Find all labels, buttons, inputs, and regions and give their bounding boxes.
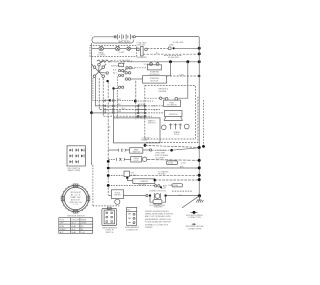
labels above bottom-middle — [138, 185, 173, 187]
svg-text:12V: 12V — [163, 188, 167, 190]
node w1b — [134, 100, 137, 103]
connector small P5 — [124, 171, 137, 179]
connector ticks rows — [104, 99, 114, 113]
svg-text:LOCK: LOCK — [134, 160, 140, 162]
wire w1 dashes right — [135, 100, 153, 102]
wire x108 to b4 — [108, 194, 111, 196]
wire rail left — [92, 43, 120, 206]
node y185 dot — [107, 184, 110, 187]
svg-text:WHT: WHT — [117, 99, 122, 101]
label m2 right — [155, 150, 169, 159]
wire main bus y62 — [128, 61, 199, 63]
svg-text:BREAKER: BREAKER — [137, 56, 147, 59]
ground chassis — [182, 196, 203, 208]
label wire rows — [117, 99, 126, 113]
label ammeter — [154, 204, 164, 209]
wire headlight row — [92, 48, 138, 50]
wire y168 row — [108, 166, 199, 168]
wire ammeter bottom to rail — [143, 52, 199, 55]
label t2 caption — [125, 226, 140, 231]
switch M2 — [108, 148, 152, 154]
connector C6 — [102, 207, 117, 225]
wire switch terminal 2 — [96, 78, 139, 106]
svg-text:B: B — [109, 130, 111, 132]
wire ammeter loop — [150, 196, 166, 204]
wire bus drop to starter — [166, 62, 170, 76]
svg-text:CHARGE: CHARGE — [140, 180, 149, 183]
starter M — [143, 76, 167, 83]
svg-text:W: W — [109, 127, 111, 129]
wire b5 to rail — [155, 179, 199, 181]
table T1 — [59, 218, 93, 234]
contacts K1 — [123, 61, 136, 80]
label cb rows — [152, 105, 157, 111]
svg-text:CONNECTIONS: CONNECTIONS — [188, 228, 202, 230]
svg-text:FUSE: FUSE — [173, 185, 179, 187]
svg-text:PLUG: PLUG — [174, 134, 180, 136]
svg-text:WIRING SHOWN WITH ALL: WIRING SHOWN WITH ALL — [145, 210, 169, 213]
wire to rail dot 48 — [175, 47, 199, 49]
node rail 147 — [198, 146, 201, 149]
wire b5 left — [127, 178, 133, 181]
plug table T0 — [67, 146, 85, 166]
contacts K0 column — [114, 63, 124, 88]
label c6 caption — [102, 226, 117, 233]
svg-text:16 GA. RED: 16 GA. RED — [173, 41, 185, 44]
wire k0 drop — [113, 89, 115, 118]
svg-text:B+A2: B+A2 — [72, 231, 76, 234]
node y175 dots — [107, 174, 201, 177]
wire bus drop to engine — [178, 62, 188, 98]
wire rail right — [198, 37, 200, 196]
wire ground run y195 — [123, 195, 182, 197]
svg-text:SWITCH: SWITCH — [111, 65, 119, 67]
svg-text:GROUND: GROUND — [158, 174, 167, 176]
svg-text:+ -: + - — [119, 65, 122, 67]
wire contacts to solenoid — [131, 68, 148, 79]
node b5 out — [154, 179, 157, 182]
wire y175 row — [108, 175, 124, 177]
node m3 dots — [107, 159, 201, 163]
node m1 out — [144, 144, 147, 147]
wire m3 row — [108, 158, 199, 161]
wire m2 circle to rail — [152, 149, 171, 151]
wire dashed y191 — [172, 190, 192, 192]
svg-text:6 GA: 6 GA — [181, 161, 186, 164]
module B4 — [112, 190, 124, 205]
connector box CB — [137, 104, 145, 118]
svg-text:NORMALLY CLOSED POS: NORMALLY CLOSED POS — [145, 223, 169, 226]
wire solenoid out y76 — [166, 73, 200, 77]
wire rail row to connector — [92, 112, 139, 114]
wire w1 continue — [110, 99, 135, 101]
svg-text:IGNITION: IGNITION — [109, 61, 118, 63]
svg-text:VIEWED: VIEWED — [145, 227, 153, 229]
svg-text:MOTOR: MOTOR — [151, 80, 159, 82]
svg-text:6 GA.: 6 GA. — [179, 73, 185, 76]
wire label row y56 — [164, 56, 182, 60]
svg-text:MAKE: MAKE — [81, 219, 87, 222]
ammeter A2 — [146, 190, 167, 199]
label inline box — [167, 161, 187, 165]
dashed outer right — [203, 100, 205, 146]
wire switch terminal 5 long — [107, 82, 109, 195]
resistor R1 — [97, 60, 111, 63]
svg-text:METER: METER — [114, 195, 121, 197]
note paragraph — [145, 210, 174, 229]
ammeter A1 — [137, 45, 148, 59]
ignition switch S1 — [92, 61, 109, 78]
svg-text:ENGINE: ENGINE — [159, 91, 167, 93]
wire switch terminal 4 — [103, 78, 138, 116]
node w1 — [109, 99, 111, 101]
svg-text:B+A1: B+A1 — [72, 225, 76, 228]
headlights dashed box — [90, 46, 137, 57]
lamp L2 — [116, 46, 126, 53]
wire switch terminal 1 — [93, 78, 109, 101]
svg-text:OCCUPIED: OCCUPIED — [155, 157, 165, 159]
label right texts — [158, 170, 170, 175]
svg-text:(BACK VIEW): (BACK VIEW) — [68, 169, 81, 172]
wire m1 drop — [144, 143, 146, 145]
key switch connector circle — [61, 184, 90, 213]
svg-text:L+M: L+M — [81, 232, 85, 234]
wire switch terminal 3 — [99, 78, 138, 110]
node k0 dot — [112, 87, 114, 89]
wire conn to e1 — [162, 97, 165, 99]
svg-text:POSITION AND KEY SWITCH: POSITION AND KEY SWITCH — [145, 221, 171, 224]
svg-text:CONNECTORS: CONNECTORS — [188, 217, 202, 219]
svg-text:CONNECTOR: CONNECTOR — [126, 229, 138, 231]
svg-text:B+L: B+L — [81, 226, 84, 228]
connector engine in — [159, 97, 161, 99]
label fuse box — [172, 184, 183, 188]
node rail 179 — [198, 178, 201, 181]
wire m2 out to rail — [172, 148, 200, 150]
label ignition — [109, 61, 120, 74]
wire m1 to rail — [145, 145, 199, 147]
node m2 out — [170, 149, 173, 152]
node rail dots top — [198, 47, 201, 56]
svg-text:ENGAGEMENT LEVER IN ON: ENGAGEMENT LEVER IN ON — [145, 218, 172, 221]
svg-text:M+G: M+G — [72, 223, 77, 225]
magneto bracket — [164, 117, 183, 121]
legend item 1 — [186, 211, 203, 219]
svg-text:SWITCH: SWITCH — [106, 232, 114, 234]
wire into engine y98 — [145, 97, 159, 99]
wire to ground — [167, 195, 199, 197]
lamp L1 — [98, 46, 106, 56]
svg-text:LIGHT: LIGHT — [119, 52, 126, 54]
svg-text:GROUND: GROUND — [138, 185, 147, 187]
module M1 — [114, 116, 161, 143]
svg-text:A1 L: A1 L — [113, 71, 118, 74]
legend item 2 — [186, 223, 205, 230]
node outer dot — [202, 145, 205, 148]
svg-text:CONNECTOR PLUG: CONNECTOR PLUG — [149, 190, 167, 192]
label zigzag row — [119, 59, 130, 65]
label key switch caption — [68, 168, 81, 172]
svg-text:BATTERY: BATTERY — [119, 40, 131, 44]
svg-text:L + S: L + S — [73, 204, 78, 206]
svg-text:BRAKE: BRAKE — [142, 139, 149, 142]
svg-text:START: START — [60, 228, 67, 231]
module B5 — [133, 179, 155, 184]
wire resistor to bus — [111, 61, 128, 62]
node rail-left junction — [90, 111, 93, 114]
svg-text:RED: RED — [169, 44, 174, 46]
node bus dots — [169, 60, 201, 63]
battery B1 — [114, 32, 135, 43]
contacts K2 — [154, 184, 167, 189]
wire battery loop top — [92, 37, 199, 43]
svg-text:A B: A B — [132, 67, 136, 70]
connector P4 — [168, 44, 175, 49]
module E2 — [165, 111, 183, 117]
wire y175 right — [130, 174, 200, 176]
svg-text:BLK: BLK — [154, 110, 158, 112]
wire k0 drop2 — [116, 77, 118, 118]
svg-text:IGNITION SWITCH: IGNITION SWITCH — [67, 215, 85, 217]
solenoid SOL — [147, 62, 161, 76]
svg-text:LIGHTS: LIGHTS — [98, 55, 106, 57]
node ground dot — [198, 194, 201, 197]
svg-text:16 GA. RED: 16 GA. RED — [168, 56, 180, 59]
svg-text:NOTE / CAUTION: NOTE / CAUTION — [149, 204, 165, 207]
switch M3 — [116, 157, 147, 163]
svg-text:B S: B S — [113, 69, 117, 71]
node switch dot — [106, 80, 108, 82]
svg-text:-: - — [130, 32, 131, 34]
wire y185 row — [108, 184, 154, 186]
svg-text:NONE: NONE — [81, 223, 87, 225]
svg-text:IGNITION: IGNITION — [169, 114, 178, 116]
wire vertical x136 — [135, 81, 137, 120]
wire cb rows to engine parts — [146, 106, 165, 116]
table T2 — [127, 207, 137, 225]
svg-text:CIRCUIT: CIRCUIT — [72, 220, 80, 222]
svg-text:AND CLUTCH PEDAL DOWN: AND CLUTCH PEDAL DOWN — [145, 215, 171, 218]
svg-text:SOLENOID: SOLENOID — [167, 105, 177, 107]
engine dashed box — [145, 86, 198, 143]
svg-text:16 GA: 16 GA — [168, 162, 174, 165]
svg-text:RUN: RUN — [60, 226, 65, 228]
magneto E3 — [162, 123, 190, 136]
svg-text:A1: A1 — [81, 228, 83, 231]
svg-text:SWITCH: SWITCH — [132, 152, 140, 154]
svg-text:SWITCH: SWITCH — [148, 123, 156, 125]
svg-text:WHEEL IN NEUTRAL POSITION: WHEEL IN NEUTRAL POSITION — [145, 213, 174, 216]
fuel solenoid E1 — [164, 98, 181, 107]
connector P3 — [127, 47, 131, 51]
label left of m1 — [109, 127, 111, 133]
wire ammeter to rail — [147, 48, 168, 50]
svg-text:+: + — [119, 32, 121, 34]
node y168 dots — [107, 166, 201, 169]
